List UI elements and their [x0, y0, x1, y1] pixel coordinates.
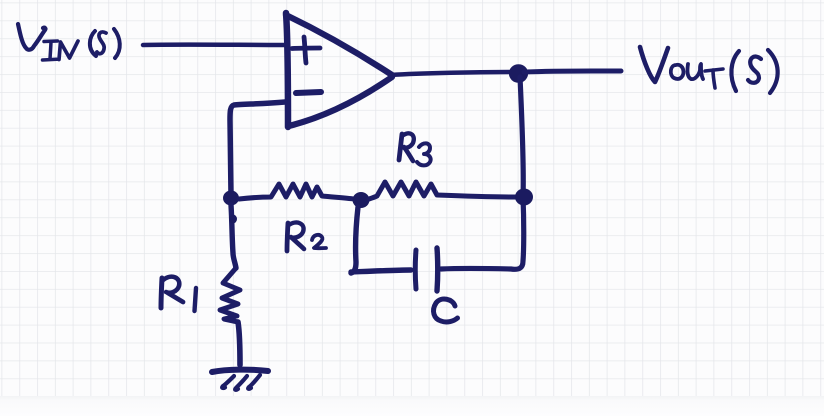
wire: R1 to ground	[238, 322, 240, 365]
wire: node A down to R1	[231, 205, 236, 268]
wire: VIN to op-amp + input	[143, 42, 288, 47]
op-amp U1	[286, 13, 392, 127]
ground symbol	[212, 370, 268, 390]
label R2	[287, 223, 326, 251]
resistor R3	[369, 182, 516, 199]
label C	[434, 299, 458, 322]
node C junction dot (feedback/output node)	[515, 189, 533, 206]
wire: node B down to capacitor	[351, 207, 411, 273]
wire: op-amp output to junction	[391, 72, 517, 75]
resistor R1	[220, 268, 240, 322]
label R1	[161, 277, 196, 311]
label VIN(s)	[18, 24, 120, 60]
node A junction dot	[223, 191, 239, 206]
capacitor C plates	[413, 250, 419, 289]
node: output junction dot	[509, 64, 528, 83]
node B junction dot	[353, 192, 370, 208]
wire: output vertical down + capacitor right side	[441, 77, 524, 269]
label VOUT(s)	[640, 47, 778, 93]
wire: junction to VOUT	[524, 71, 621, 72]
label R3	[399, 133, 431, 165]
wire: inverting input feedback (horizontal + vertical to node A)	[230, 102, 285, 195]
resistor R2	[239, 184, 354, 199]
